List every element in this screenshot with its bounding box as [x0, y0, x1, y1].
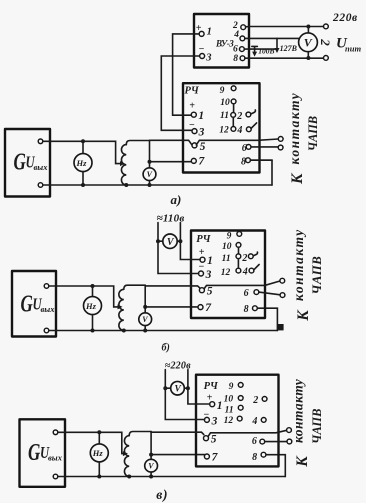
svg-text:контакту: контакту — [291, 228, 306, 301]
svg-text:V: V — [304, 36, 313, 50]
svg-text:б): б) — [162, 343, 170, 354]
svg-text:V: V — [175, 385, 182, 395]
svg-text:10: 10 — [224, 395, 234, 405]
svg-text:1: 1 — [217, 400, 223, 412]
svg-text:8: 8 — [233, 54, 238, 64]
svg-text:вых: вых — [41, 304, 56, 314]
svg-text:4: 4 — [242, 267, 248, 278]
svg-text:+: + — [199, 247, 205, 258]
svg-text:G: G — [28, 439, 40, 466]
svg-text:Hz: Hz — [76, 158, 88, 168]
svg-text:5: 5 — [200, 141, 206, 153]
svg-text:12: 12 — [221, 268, 231, 278]
svg-text:2: 2 — [241, 253, 247, 264]
svg-text:11: 11 — [222, 254, 231, 264]
svg-text:а): а) — [171, 192, 182, 207]
svg-text:9: 9 — [227, 231, 232, 241]
svg-text:8: 8 — [252, 452, 257, 463]
svg-text:5: 5 — [207, 286, 213, 298]
svg-text:1: 1 — [198, 110, 204, 122]
svg-text:9: 9 — [220, 86, 225, 96]
svg-text:V: V — [147, 170, 153, 179]
svg-text:G: G — [21, 291, 33, 318]
svg-text:3: 3 — [205, 269, 212, 281]
svg-text:6: 6 — [252, 436, 257, 447]
svg-text:V: V — [142, 315, 148, 324]
svg-text:К: К — [289, 172, 306, 185]
svg-text:11: 11 — [220, 111, 229, 121]
svg-text:Hz: Hz — [85, 301, 97, 311]
svg-text:3: 3 — [198, 126, 205, 138]
svg-text:ВУ-3: ВУ-3 — [215, 39, 234, 49]
svg-text:6: 6 — [244, 288, 249, 299]
svg-text:К: К — [294, 455, 311, 468]
svg-text:220в: 220в — [332, 12, 358, 24]
svg-text:1: 1 — [207, 27, 212, 38]
svg-text:РЧ: РЧ — [196, 234, 211, 245]
svg-text:V: V — [148, 462, 154, 471]
svg-text:контакту: контакту — [287, 92, 302, 165]
svg-text:+: + — [189, 101, 195, 112]
svg-text:10: 10 — [220, 98, 230, 108]
svg-text:2: 2 — [236, 111, 242, 122]
svg-text:4: 4 — [236, 125, 242, 136]
svg-text:100В: 100В — [258, 46, 274, 55]
svg-text:12: 12 — [219, 126, 229, 136]
svg-text:вых: вых — [34, 162, 49, 172]
svg-text:10: 10 — [222, 242, 232, 252]
svg-text:Hz: Hz — [92, 448, 104, 458]
svg-text:в): в) — [156, 487, 168, 502]
svg-text:4: 4 — [251, 416, 257, 427]
svg-text:РЧ: РЧ — [185, 86, 200, 97]
svg-text:контакту: контакту — [291, 378, 306, 443]
svg-text:6: 6 — [233, 45, 238, 55]
svg-text:РЧ: РЧ — [204, 381, 219, 392]
svg-text:127В: 127В — [280, 44, 298, 53]
svg-text:5: 5 — [211, 434, 217, 446]
svg-text:ЧАПВ: ЧАПВ — [306, 116, 320, 151]
svg-text:2: 2 — [318, 38, 333, 46]
svg-text:К: К — [295, 309, 312, 322]
svg-text:8: 8 — [241, 157, 246, 168]
svg-text:4: 4 — [233, 30, 239, 40]
svg-text:ЧАПВ: ЧАПВ — [309, 256, 324, 295]
svg-text:вых: вых — [48, 452, 63, 462]
svg-text:2: 2 — [252, 395, 258, 406]
svg-text:3: 3 — [205, 52, 211, 63]
svg-text:1: 1 — [207, 255, 213, 267]
svg-text:3: 3 — [211, 415, 218, 427]
svg-text:пит: пит — [345, 44, 361, 54]
svg-text:9: 9 — [229, 382, 234, 392]
svg-text:11: 11 — [225, 405, 234, 415]
svg-text:12: 12 — [224, 416, 234, 426]
svg-text:8: 8 — [244, 304, 249, 315]
svg-text:G: G — [14, 149, 26, 176]
svg-text:ЧАПВ: ЧАПВ — [310, 409, 324, 444]
